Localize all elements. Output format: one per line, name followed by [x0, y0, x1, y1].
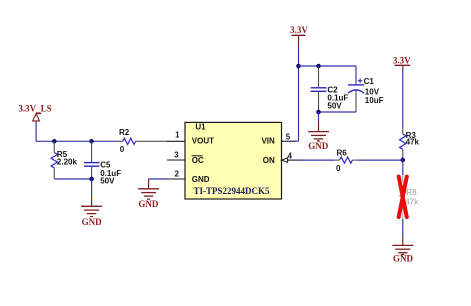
svg-text:GND: GND	[192, 175, 210, 184]
svg-text:0: 0	[120, 145, 125, 154]
pin 1 VOUT stub	[167, 140, 185, 142]
svg-text:10uF: 10uF	[365, 96, 384, 105]
pin 4 ON arrow	[282, 158, 299, 162]
wire R6 to junction	[358, 159, 403, 161]
svg-text:VOUT: VOUT	[192, 137, 214, 146]
svg-text:1: 1	[175, 130, 180, 139]
wire C5 bottom down to ground	[91, 179, 93, 198]
node junction caps bottom / ground	[316, 110, 321, 115]
svg-text:47k: 47k	[405, 198, 419, 207]
capacitor C5	[84, 141, 121, 185]
svg-text:C1: C1	[364, 77, 375, 86]
svg-text:2.20k: 2.20k	[57, 157, 78, 166]
pin 2 GND stub	[167, 178, 185, 180]
svg-text:GND: GND	[393, 253, 414, 263]
svg-text:VIN: VIN	[261, 137, 275, 146]
resistor R6	[335, 148, 359, 173]
power flag 3.3V (top center)	[290, 25, 308, 47]
svg-text:U1: U1	[195, 123, 206, 132]
power flag 3.3V (top right)	[393, 55, 411, 70]
svg-text:GND: GND	[138, 199, 159, 209]
ground GND (below caps)	[308, 122, 329, 151]
IC U1 TI-TPS22944DCK5	[185, 122, 282, 199]
svg-text:TI-TPS22944DCK5: TI-TPS22944DCK5	[193, 186, 270, 196]
wire cap top rail	[299, 65, 357, 67]
svg-text:GND: GND	[82, 217, 103, 227]
svg-text:R6: R6	[337, 148, 348, 157]
wire caps bottom rail	[319, 111, 357, 113]
ground GND (pin 2)	[138, 179, 159, 209]
svg-text:47k: 47k	[406, 138, 420, 147]
resistor R3	[400, 127, 420, 156]
svg-text:3.3V: 3.3V	[290, 25, 308, 35]
svg-text:2: 2	[174, 170, 179, 179]
wire left rail to R2	[36, 140, 119, 142]
svg-text:3.3V: 3.3V	[393, 55, 411, 65]
svg-text:50V: 50V	[100, 177, 115, 186]
node junction C2 top	[316, 64, 321, 69]
svg-text:4: 4	[287, 151, 292, 160]
wire R3 to junction	[402, 156, 404, 160]
svg-text:3: 3	[174, 151, 179, 160]
node junction C5 bottom	[89, 177, 94, 182]
svg-text:OC: OC	[192, 156, 204, 165]
svg-text:0: 0	[336, 164, 341, 173]
svg-text:3.3V_LS: 3.3V_LS	[18, 104, 51, 114]
pin 3 OC stub	[167, 159, 185, 161]
wire caps bottom to ground	[318, 112, 320, 122]
no-fit cross over R8	[399, 177, 407, 217]
svg-text:R8: R8	[406, 188, 417, 197]
resistor R5	[51, 141, 77, 179]
power flag 3.3V_LS	[18, 104, 51, 123]
wire junction down to R8	[402, 160, 404, 175]
svg-text:GND: GND	[308, 141, 329, 151]
svg-text:50V: 50V	[327, 102, 342, 111]
resistor R2	[119, 128, 167, 154]
wire bottom rail R5 to C5	[54, 178, 91, 180]
wire from 3.3V_LS flag down	[35, 123, 37, 142]
svg-text:R2: R2	[119, 128, 130, 137]
wire 3.3V down to R3	[402, 70, 404, 128]
pin 5 VIN stub	[282, 140, 297, 142]
node junction ON net	[401, 158, 406, 163]
wire C1 branch down	[355, 66, 357, 81]
wire pin 2 to ground	[149, 178, 167, 180]
ground GND (below C5)	[81, 198, 102, 228]
resistor R8 (not fitted, grayed)	[400, 175, 419, 219]
capacitor C2	[311, 66, 349, 112]
svg-text:5: 5	[286, 132, 291, 141]
wire R8 down to ground	[402, 219, 404, 237]
node junction 3.3V riser / cap rail	[296, 64, 301, 69]
capacitor C1 (polarized)	[348, 77, 384, 112]
ground GND (bottom right)	[392, 237, 413, 264]
node junction left rail / C5	[89, 139, 94, 144]
svg-text:ON: ON	[263, 156, 275, 165]
wire 3.3V down to pin 5	[294, 47, 299, 142]
wire pin 4 to R6	[299, 159, 335, 161]
node junction left rail / R5	[52, 139, 57, 144]
